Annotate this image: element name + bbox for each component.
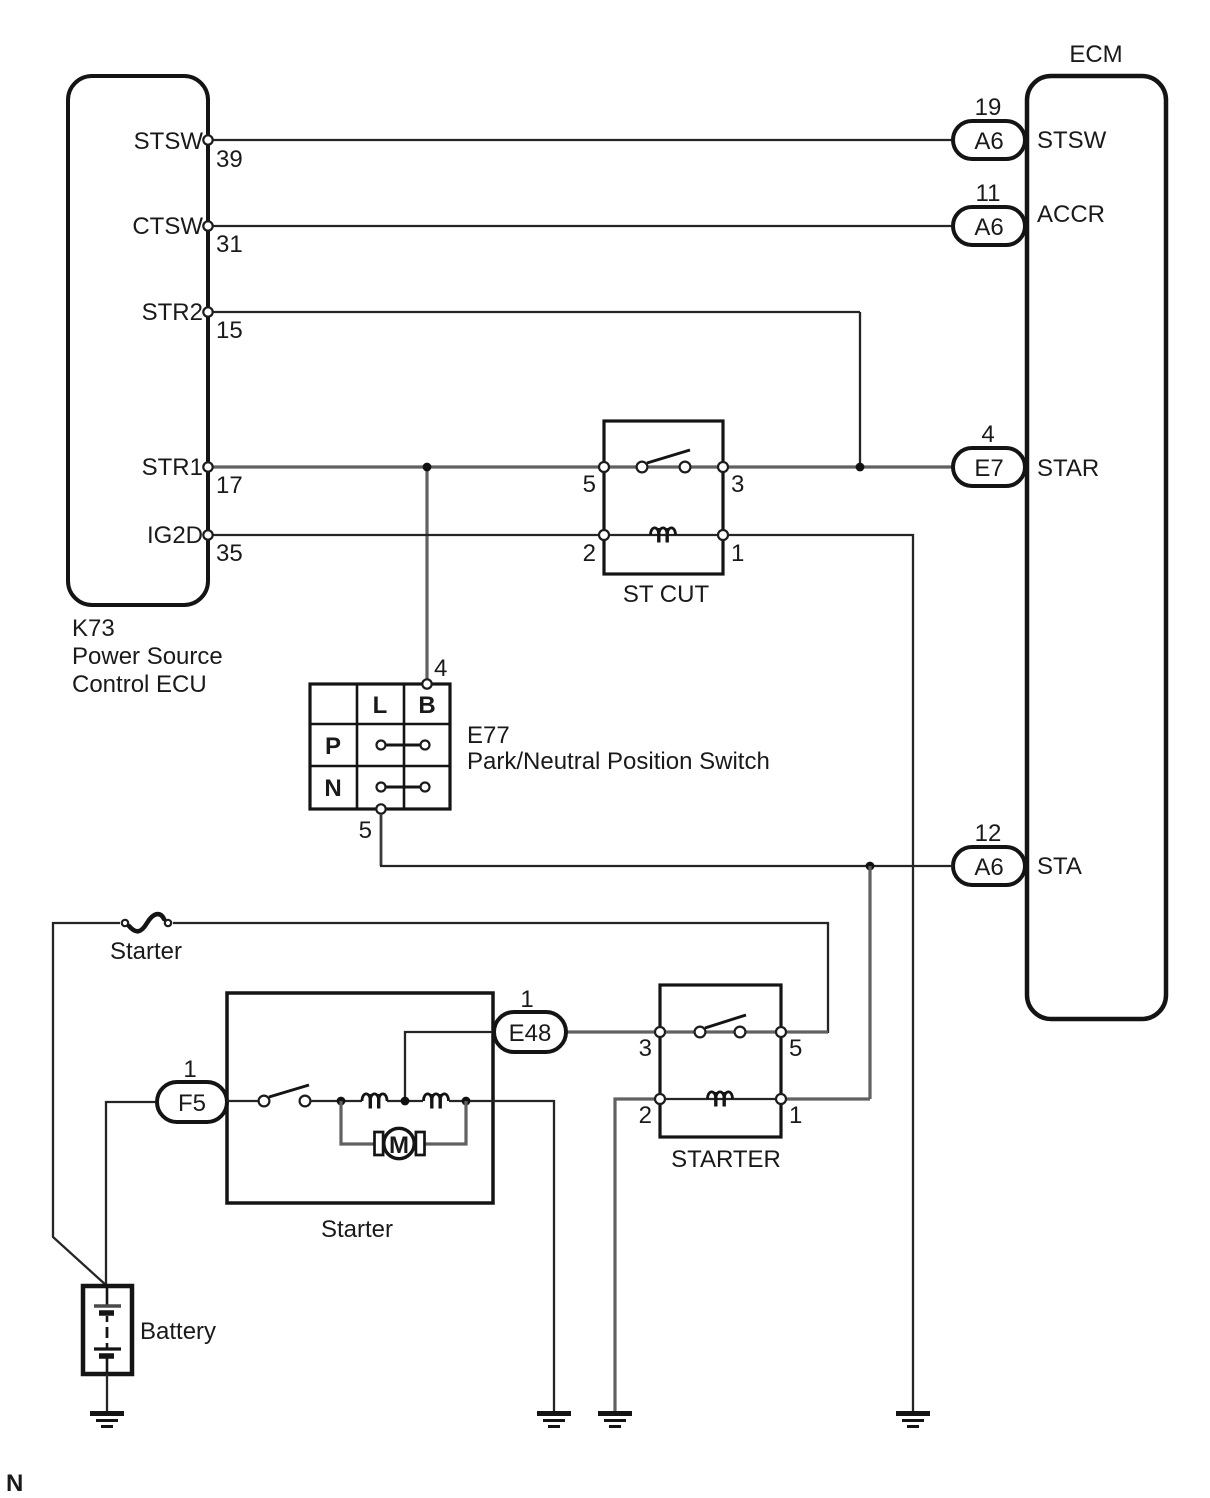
ST CUT coil winding bbox=[651, 528, 676, 543]
svg-text:1: 1 bbox=[183, 1056, 196, 1083]
STARTER coil wire bbox=[660, 1098, 781, 1100]
fuse Starter fusible link bbox=[122, 914, 171, 931]
junction STR1 / E77 branch bbox=[423, 463, 432, 472]
wire STA branch down to STARTER relay pin 1 bbox=[868, 866, 871, 1099]
wire STA net: E77 pin 5 drop bbox=[380, 814, 383, 866]
svg-text:E77: E77 bbox=[467, 722, 510, 749]
E77 P-row contact bbox=[377, 741, 430, 750]
K73 pin circle 17 bbox=[203, 462, 212, 471]
ST CUT switch circles bbox=[637, 462, 691, 473]
wire IG2D net: K73 35 to ST CUT pin 2 bbox=[213, 534, 598, 536]
junction STA / starter relay coil branch bbox=[866, 862, 875, 871]
svg-text:N: N bbox=[6, 1470, 23, 1497]
svg-text:CTSW: CTSW bbox=[132, 213, 203, 240]
svg-text:1: 1 bbox=[789, 1102, 802, 1129]
svg-text:P: P bbox=[325, 733, 341, 760]
wire STSW net: K73 39 to ECM A6-19 bbox=[213, 139, 953, 141]
ST CUT switch contact wire bbox=[604, 465, 723, 468]
svg-text:5: 5 bbox=[583, 471, 596, 498]
junction coil2 node bbox=[462, 1097, 471, 1106]
starter coil 1 winding bbox=[362, 1094, 387, 1109]
wire battery + feed: left drop from fuse line bbox=[53, 923, 120, 1286]
svg-text:A6: A6 bbox=[974, 854, 1003, 881]
ground symbol st cut coil bbox=[896, 1414, 930, 1427]
junction coil1 node bbox=[337, 1097, 346, 1106]
svg-text:17: 17 bbox=[216, 472, 243, 499]
junction STAR / STR2 bbox=[856, 463, 865, 472]
ST CUT pin 2 circle bbox=[599, 530, 609, 540]
wire STR1 net: K73 17 to ST CUT pin 5 bbox=[213, 465, 598, 468]
svg-text:E7: E7 bbox=[974, 455, 1003, 482]
connector oval E7 pin 4 bbox=[953, 448, 1025, 486]
connector oval E48 pin 1 bbox=[494, 1012, 566, 1052]
svg-text:39: 39 bbox=[216, 146, 243, 173]
wire E48 to STARTER pin 3 bbox=[566, 1030, 654, 1033]
K73 pin circle 35 bbox=[203, 530, 212, 539]
STARTER coil winding bbox=[708, 1092, 733, 1107]
svg-text:1: 1 bbox=[731, 540, 744, 567]
svg-text:E48: E48 bbox=[509, 1020, 552, 1047]
connector oval A6 pin 12 bbox=[953, 847, 1025, 885]
K73 pin circle 39 bbox=[203, 135, 212, 144]
STARTER pin 5 circle bbox=[776, 1027, 786, 1037]
wire motor branch left bbox=[341, 1101, 375, 1144]
ECM body bbox=[1027, 76, 1166, 1019]
STARTER pin 2 circle bbox=[655, 1094, 665, 1104]
wire F5 to battery bbox=[106, 1102, 157, 1286]
svg-text:3: 3 bbox=[639, 1035, 652, 1062]
svg-text:19: 19 bbox=[975, 94, 1002, 121]
svg-text:ACCR: ACCR bbox=[1037, 201, 1105, 228]
svg-text:Control ECU: Control ECU bbox=[72, 671, 207, 698]
motor M armature bbox=[375, 1128, 425, 1159]
STARTER switch blade bbox=[705, 1015, 746, 1028]
svg-text:ECM: ECM bbox=[1069, 41, 1122, 68]
svg-text:K73: K73 bbox=[72, 615, 115, 642]
K73 label text bbox=[72, 615, 223, 698]
connector oval A6 pin 19 bbox=[953, 121, 1025, 159]
svg-text:A6: A6 bbox=[974, 128, 1003, 155]
svg-text:5: 5 bbox=[359, 817, 372, 844]
svg-text:STR1: STR1 bbox=[142, 454, 203, 481]
svg-text:Battery: Battery bbox=[140, 1318, 216, 1345]
starter switch circles bbox=[259, 1096, 311, 1107]
K73 pin circle 31 bbox=[203, 221, 212, 230]
wire coil2 to box exit and ground bbox=[449, 1101, 554, 1411]
starter coil 2 winding bbox=[424, 1094, 449, 1109]
svg-text:Starter: Starter bbox=[321, 1216, 393, 1243]
svg-text:STSW: STSW bbox=[134, 128, 204, 155]
ground symbol battery bbox=[90, 1414, 124, 1427]
STARTER switch circles bbox=[695, 1027, 746, 1038]
ST CUT pin 1 circle bbox=[718, 530, 728, 540]
ECU K73 Power Source Control ECU body bbox=[68, 76, 208, 605]
junction E48 branch bbox=[401, 1097, 410, 1106]
ground symbol starter motor bbox=[537, 1414, 571, 1427]
svg-text:Power Source: Power Source bbox=[72, 643, 223, 670]
svg-text:N: N bbox=[324, 775, 341, 802]
wire STA net: horizontal to ECM A6-12 bbox=[380, 865, 953, 867]
E77 pin 4 circle bbox=[422, 679, 431, 688]
wire switch to coil 1 bbox=[310, 1100, 362, 1102]
wire battery negative to ground bbox=[106, 1374, 108, 1411]
battery B1 body bbox=[83, 1286, 132, 1374]
E77 N-row contact bbox=[377, 783, 430, 792]
svg-text:1: 1 bbox=[520, 986, 533, 1013]
battery cell symbol bbox=[94, 1286, 121, 1374]
STARTER pin 3 circle bbox=[655, 1027, 665, 1037]
ST CUT coil wire bbox=[604, 534, 723, 536]
svg-text:2: 2 bbox=[639, 1102, 652, 1129]
svg-text:M: M bbox=[389, 1132, 409, 1159]
svg-text:11: 11 bbox=[976, 180, 1001, 207]
E77 pin 5 circle bbox=[376, 804, 385, 813]
wire fuse to STARTER relay pin 5 riser bbox=[173, 923, 828, 1033]
svg-text:4: 4 bbox=[434, 655, 447, 682]
svg-text:A6: A6 bbox=[974, 214, 1003, 241]
wire STR2 net: vertical down to STAR wire bbox=[859, 312, 861, 467]
STARTER switch contact wire bbox=[660, 1030, 781, 1033]
svg-text:4: 4 bbox=[981, 421, 994, 448]
svg-text:STAR: STAR bbox=[1037, 455, 1099, 482]
switch E77 Park/Neutral Position Switch grid bbox=[310, 684, 450, 809]
svg-text:2: 2 bbox=[583, 540, 596, 567]
wire CTSW net: K73 31 to ECM A6-11 bbox=[213, 225, 953, 227]
connector oval A6 pin 11 bbox=[953, 207, 1025, 245]
motor unit Starter body bbox=[227, 993, 493, 1203]
relay STARTER body bbox=[660, 985, 781, 1137]
E77 label bbox=[467, 722, 770, 775]
wire motor branch right bbox=[424, 1101, 466, 1144]
wire starter internal main bbox=[227, 1100, 259, 1102]
svg-text:35: 35 bbox=[216, 540, 243, 567]
K73 pin circle 15 bbox=[203, 307, 212, 316]
wire STAR net: ST CUT pin 3 to ECM E7-4 bbox=[729, 465, 953, 468]
svg-text:31: 31 bbox=[216, 231, 243, 258]
svg-text:STARTER: STARTER bbox=[671, 1146, 781, 1173]
svg-text:STSW: STSW bbox=[1037, 127, 1107, 154]
ST CUT pin 5 circle bbox=[599, 462, 609, 472]
svg-text:ST CUT: ST CUT bbox=[623, 581, 710, 608]
ground symbol starter relay coil bbox=[598, 1414, 632, 1427]
wire STARTER pin 2 to ground bbox=[615, 1099, 654, 1411]
wire between coils bbox=[387, 1100, 423, 1102]
svg-text:B: B bbox=[418, 692, 435, 719]
wire ST CUT pin 1 to ground run bbox=[729, 535, 913, 1411]
ST CUT switch blade bbox=[647, 450, 690, 463]
STARTER pin 1 circle bbox=[776, 1094, 786, 1104]
wire STR1 net: branch down to E77 pin 4 bbox=[425, 467, 428, 679]
svg-text:STA: STA bbox=[1037, 853, 1082, 880]
relay ST CUT body bbox=[604, 421, 723, 574]
svg-text:STR2: STR2 bbox=[142, 299, 203, 326]
svg-text:IG2D: IG2D bbox=[147, 522, 203, 549]
ST CUT pin 3 circle bbox=[718, 462, 728, 472]
wire E48 branch riser bbox=[405, 1032, 493, 1101]
wire STR2 net: K73 15 horizontal bbox=[213, 311, 860, 313]
svg-text:Park/Neutral Position Switch: Park/Neutral Position Switch bbox=[467, 748, 770, 775]
svg-text:15: 15 bbox=[216, 317, 243, 344]
svg-text:F5: F5 bbox=[178, 1090, 206, 1117]
svg-text:3: 3 bbox=[731, 471, 744, 498]
starter switch blade bbox=[269, 1085, 309, 1097]
svg-text:12: 12 bbox=[975, 820, 1002, 847]
connector oval F5 pin 1 bbox=[157, 1082, 227, 1122]
svg-text:5: 5 bbox=[789, 1035, 802, 1062]
svg-text:Starter: Starter bbox=[110, 938, 182, 965]
svg-text:L: L bbox=[373, 692, 388, 719]
